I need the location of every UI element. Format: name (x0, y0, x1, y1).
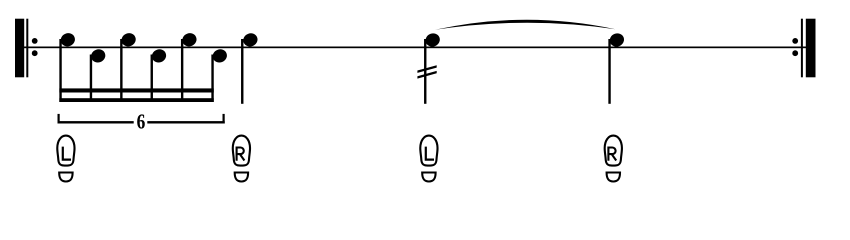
tie (435, 20, 616, 30)
footprint 1 letter L (63, 147, 71, 160)
footprint 1 heel (59, 173, 72, 182)
sextuplet note 4 head (150, 47, 168, 64)
sextuplet note 3 head (120, 31, 138, 48)
footprint 1 sole outline (57, 136, 74, 166)
sextuplet note 6 head (211, 47, 229, 64)
sextuplet note 4 stem (151, 55, 153, 103)
left repeat dot lower (32, 50, 38, 56)
sextuplet note 5 head (180, 31, 198, 48)
tuplet bracket left horizontal (58, 121, 134, 123)
tremolo note head (424, 31, 442, 48)
footprint 2 heel (235, 173, 248, 182)
tied note head (608, 31, 626, 48)
tuplet bracket right tick (223, 114, 225, 124)
right repeat dot lower (792, 50, 798, 56)
sextuplet note 5 stem (181, 39, 183, 102)
sextuplet note 6 stem (211, 55, 213, 103)
footprint 3 heel (422, 173, 435, 182)
sextuplet upper beam (59, 88, 213, 92)
tuplet number 6 (137, 114, 145, 128)
tremolo slash upper (417, 65, 436, 73)
sextuplet note 1 head (59, 31, 77, 48)
left repeat barline thin bar (26, 19, 28, 78)
left repeat dot upper (32, 38, 38, 44)
footprint 4 heel (607, 173, 620, 182)
right repeat barline thin bar (801, 19, 803, 78)
quarter note stem (241, 39, 243, 104)
footprint 2 letter R (237, 148, 245, 161)
sextuplet lower beam (59, 98, 213, 102)
footprint 3 sole outline (420, 136, 437, 166)
tuplet bracket left tick (58, 114, 60, 124)
tremolo note stem (424, 39, 426, 104)
tuplet bracket right horizontal (147, 121, 224, 123)
sextuplet note 2 head (89, 47, 107, 64)
tied note stem (608, 39, 610, 104)
left repeat barline thick bar (15, 19, 24, 78)
right repeat barline thick bar (806, 19, 816, 78)
footprint 2 sole outline (233, 136, 250, 166)
quarter note head (241, 31, 259, 48)
sextuplet note 2 stem (90, 55, 92, 103)
tremolo slash lower (417, 71, 436, 79)
footprint 4 sole outline (605, 136, 622, 166)
footprint 3 letter L (426, 147, 434, 160)
sextuplet note 1 stem (59, 39, 61, 102)
right repeat dot upper (792, 38, 798, 44)
staff line (15, 47, 816, 49)
footprint 4 letter R (608, 148, 616, 161)
sextuplet note 3 stem (120, 39, 122, 102)
